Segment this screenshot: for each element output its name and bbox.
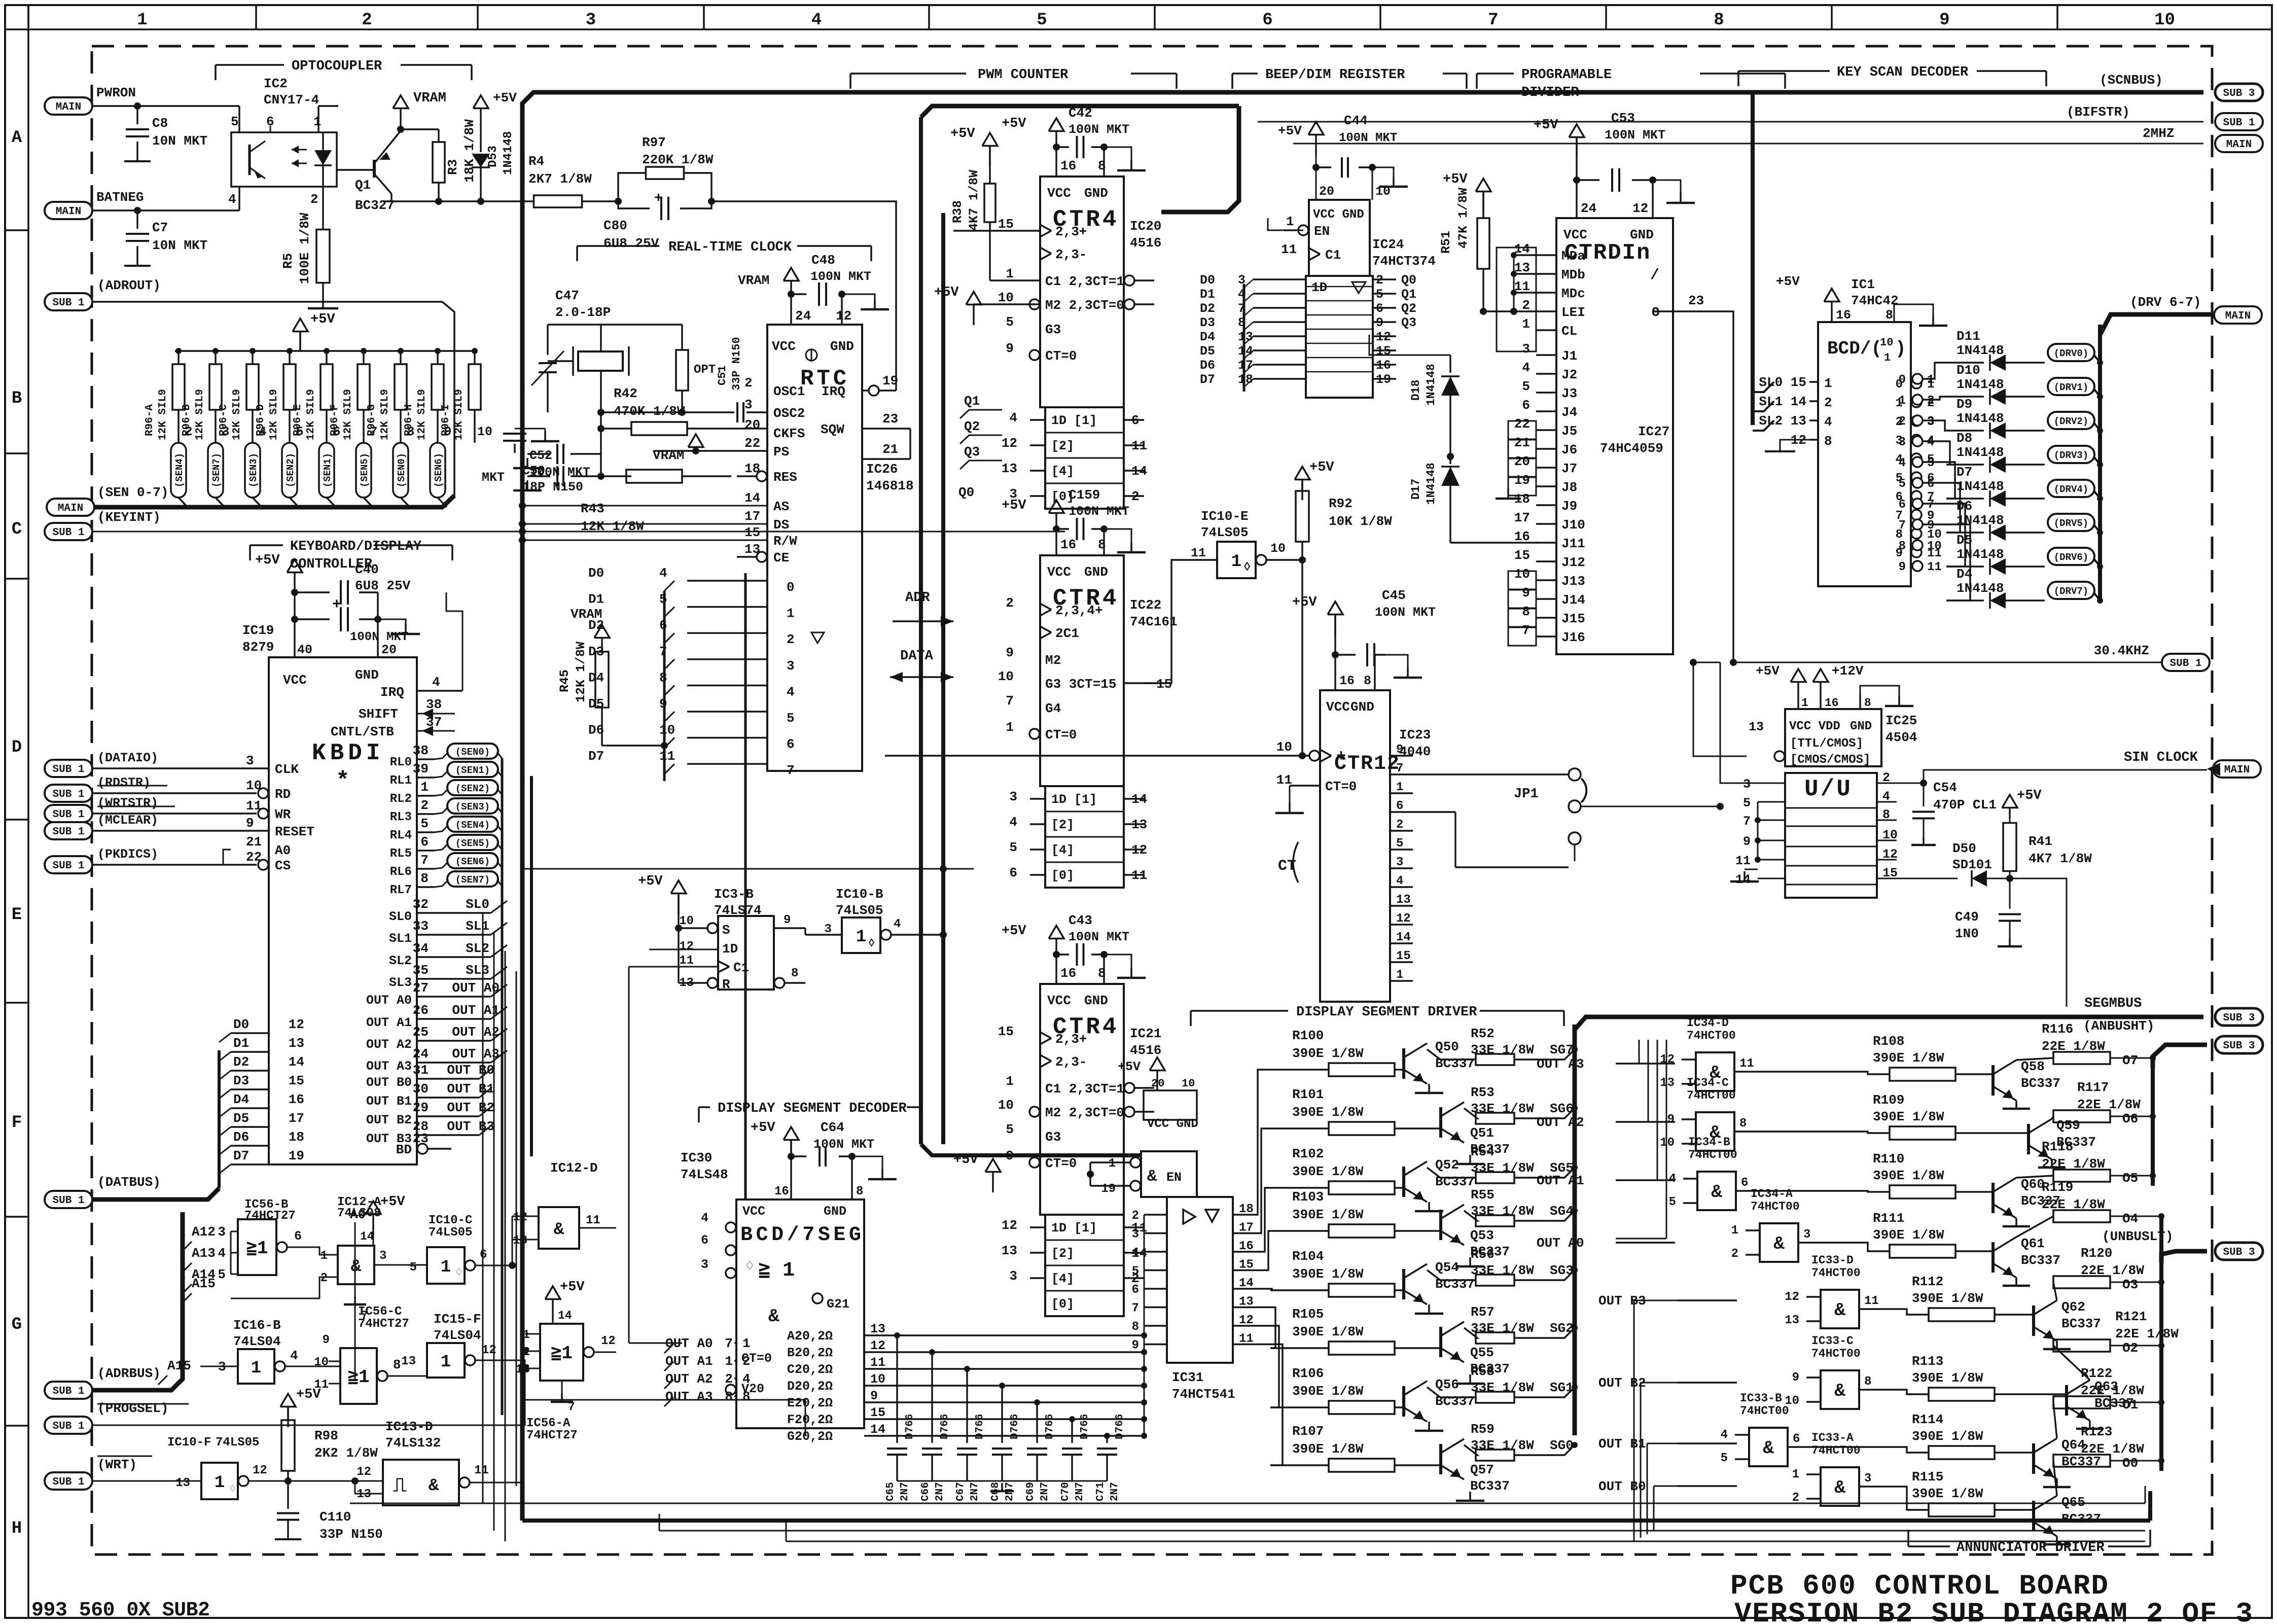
svg-text:1N4148: 1N4148: [1956, 479, 2004, 494]
svg-text:18P N150: 18P N150: [522, 480, 583, 495]
svg-text:BEEP/DIM REGISTER: BEEP/DIM REGISTER: [1265, 67, 1405, 83]
pin 11 of U/U left: [1758, 859, 1785, 861]
pin 10 of U/U right: [1877, 840, 1897, 841]
svg-text:13: 13: [1396, 893, 1411, 907]
svg-text:74LS48: 74LS48: [681, 1167, 728, 1182]
svg-text:+5V: +5V: [1118, 1060, 1141, 1074]
svg-text:CNTL/STB: CNTL/STB: [331, 724, 394, 739]
svg-text:17: 17: [1238, 358, 1253, 373]
svg-text:≧1: ≧1: [347, 1367, 369, 1388]
svg-text:(SEN7): (SEN7): [211, 453, 222, 487]
svg-text:C53: C53: [1611, 111, 1635, 126]
svg-text:+: +: [654, 191, 663, 206]
svg-text:WR: WR: [275, 807, 291, 822]
svg-text:1: 1: [420, 780, 429, 795]
svg-text:SUB 1: SUB 1: [52, 809, 84, 821]
svg-text:11: 11: [659, 749, 675, 764]
connector (DRV1): [2048, 378, 2094, 395]
svg-text:+5V: +5V: [1443, 172, 1468, 187]
svg-text:D4: D4: [233, 1092, 249, 1107]
svg-text:10: 10: [1375, 184, 1391, 199]
svg-text:A12: A12: [192, 1224, 216, 1240]
svg-text:IC34-B: IC34-B: [1688, 1136, 1730, 1149]
svg-text:OUT B2: OUT B2: [447, 1100, 494, 1115]
svg-text:2: 2: [1731, 1247, 1738, 1261]
svg-text:14: 14: [558, 1309, 572, 1322]
svg-text:+5V: +5V: [1002, 924, 1026, 939]
svg-text:CT=0: CT=0: [1045, 727, 1077, 743]
svg-text:2: 2: [787, 632, 795, 647]
svg-text:AS: AS: [773, 499, 789, 514]
svg-text:+5V: +5V: [1309, 460, 1334, 475]
svg-text:SL1: SL1: [466, 919, 489, 934]
svg-text:20: 20: [1151, 1077, 1164, 1090]
svg-text:R51: R51: [1439, 231, 1453, 254]
svg-text:1: 1: [523, 1328, 530, 1342]
svg-text:1: 1: [1396, 968, 1403, 982]
svg-text:VCC: VCC: [742, 1204, 765, 1219]
svg-text:D766: D766: [904, 1414, 916, 1439]
svg-text:D50: D50: [1952, 841, 1976, 856]
svg-text:1N4148: 1N4148: [1956, 343, 2004, 358]
svg-text:R43: R43: [581, 501, 604, 516]
svg-text:IC10-C: IC10-C: [429, 1214, 472, 1227]
svg-text:29: 29: [413, 1100, 429, 1115]
svg-text:2MHZ: 2MHZ: [2143, 126, 2174, 141]
connector MAIN: [2213, 760, 2261, 778]
resistor R5: [322, 187, 324, 229]
svg-text:KEYBOARD/DISPLAY: KEYBOARD/DISPLAY: [290, 539, 422, 554]
svg-text:CT=0: CT=0: [1045, 348, 1077, 364]
svg-text:100N MKT: 100N MKT: [1069, 122, 1129, 137]
wire SCNBUS drop to IC1: [1751, 94, 1755, 425]
connector (SEN0): [393, 443, 408, 498]
svg-text:BC337: BC337: [1435, 1394, 1475, 1409]
svg-text:7: 7: [1522, 623, 1530, 638]
svg-text:6: 6: [1899, 498, 1906, 512]
svg-text:OUT A1: OUT A1: [452, 1003, 500, 1018]
svg-text:146818: 146818: [866, 478, 914, 493]
svg-text:OUT A1: OUT A1: [1537, 1173, 1584, 1188]
resistor R96-H 12K SIL9: [435, 348, 441, 354]
section label BEEP/DIM REGISTER: [1232, 73, 1258, 75]
connector SUB 1: [45, 856, 92, 873]
svg-text:Q1: Q1: [1401, 287, 1416, 302]
svg-text:R111: R111: [1873, 1211, 1904, 1226]
svg-text:D2: D2: [233, 1054, 249, 1070]
svg-text:390E 1/8W: 390E 1/8W: [1292, 1324, 1364, 1339]
buffer IC31 74HCT541 enable gate: [1141, 1151, 1197, 1197]
svg-text:33P N150: 33P N150: [319, 1527, 383, 1542]
svg-text:2: 2: [1824, 395, 1832, 410]
svg-text:74HCT00: 74HCT00: [1811, 1266, 1861, 1280]
svg-text:11: 11: [1739, 1057, 1754, 1071]
counter IC22 74C161 CTR4: [1049, 500, 1064, 513]
wire WRT net: [92, 1480, 201, 1482]
resistor R96-D 12K SIL9: [287, 348, 293, 354]
svg-text:4: 4: [1396, 874, 1403, 888]
svg-text:R123: R123: [2081, 1424, 2112, 1439]
svg-text:SUB 1: SUB 1: [52, 1476, 84, 1488]
svg-text:2K2 1/8W: 2K2 1/8W: [314, 1445, 378, 1461]
svg-text:IRQ: IRQ: [380, 685, 404, 700]
resistor R96-B 12K SIL9: [212, 348, 219, 354]
svg-text:470K 1/8W: 470K 1/8W: [614, 404, 685, 419]
svg-text:10N MKT: 10N MKT: [152, 133, 207, 149]
pin MDa 14 of IC27: [1536, 254, 1556, 256]
crystal oscillator: [578, 351, 623, 371]
svg-text:R113: R113: [1912, 1354, 1943, 1369]
svg-text:OUT B3: OUT B3: [447, 1119, 494, 1134]
svg-text:SUB 3: SUB 3: [2223, 1247, 2255, 1258]
svg-text:D53: D53: [486, 146, 500, 167]
svg-text:(DRV2): (DRV2): [2054, 416, 2088, 427]
ground: [1744, 871, 1746, 881]
svg-text:&: &: [1834, 1381, 1845, 1401]
ground: [526, 458, 528, 468]
svg-text:IC10-E: IC10-E: [1201, 509, 1249, 524]
svg-text:1D [1]: 1D [1]: [1051, 1221, 1097, 1235]
svg-text:IC16-B: IC16-B: [233, 1318, 281, 1333]
svg-text:G4: G4: [1045, 701, 1061, 716]
svg-text:390E 1/8W: 390E 1/8W: [1912, 1370, 1983, 1386]
svg-text:Q61: Q61: [2021, 1236, 2045, 1251]
svg-text:10: 10: [998, 290, 1014, 305]
svg-text:23: 23: [1688, 293, 1704, 308]
svg-text:OUT A2: OUT A2: [1537, 1115, 1584, 1130]
svg-text:27: 27: [413, 980, 429, 996]
svg-text:IC34-D: IC34-D: [1687, 1016, 1729, 1030]
svg-text:13: 13: [744, 542, 760, 557]
svg-text:(MCLEAR): (MCLEAR): [97, 813, 158, 828]
diode D53 1N4148: [480, 109, 481, 152]
svg-text:74LS05: 74LS05: [1201, 525, 1249, 540]
svg-text:RL7: RL7: [390, 884, 412, 897]
svg-text:CL: CL: [1561, 324, 1577, 339]
svg-text:13: 13: [513, 1234, 527, 1248]
svg-text:1: 1: [1824, 376, 1832, 391]
svg-text:38: 38: [413, 743, 429, 758]
ground: [2051, 1159, 2053, 1168]
svg-text:15: 15: [998, 1024, 1014, 1039]
svg-text:8: 8: [393, 1357, 401, 1372]
svg-text:3: 3: [1864, 1472, 1871, 1486]
wire PROGSEL net: [97, 1403, 189, 1405]
svg-text:D0: D0: [588, 566, 604, 581]
svg-text:12: 12: [836, 308, 851, 324]
wire IRQ pull-up net: [711, 201, 896, 391]
svg-text:C70: C70: [1060, 1482, 1072, 1501]
svg-text:SUB 1: SUB 1: [52, 1386, 84, 1397]
svg-text:13: 13: [289, 1036, 304, 1051]
svg-text:74HCT27: 74HCT27: [244, 1209, 296, 1223]
svg-text:SD101: SD101: [1952, 857, 1992, 872]
power +5V: [1295, 467, 1310, 480]
svg-text:4: 4: [811, 11, 822, 30]
svg-text:(UNBUSLT): (UNBUSLT): [2102, 1229, 2173, 1244]
svg-text:11: 11: [870, 1355, 885, 1370]
svg-text:B20,2Ω: B20,2Ω: [787, 1346, 833, 1360]
svg-text:MAIN: MAIN: [2226, 139, 2252, 151]
svg-text:CS: CS: [275, 858, 291, 873]
svg-text:0: 0: [1899, 373, 1906, 387]
svg-text:3: 3: [787, 658, 795, 674]
svg-text:4: 4: [659, 566, 667, 581]
svg-text:[2]: [2]: [1051, 1246, 1074, 1261]
svg-text:R109: R109: [1873, 1092, 1904, 1108]
svg-text:RD: RD: [275, 787, 291, 802]
svg-text:R5: R5: [280, 253, 296, 269]
svg-text:D3: D3: [233, 1073, 249, 1088]
connector (SEN4): [447, 817, 498, 832]
svg-text:74LS05: 74LS05: [216, 1436, 259, 1450]
svg-text:SUB 3: SUB 3: [2223, 1012, 2255, 1024]
svg-text:R97: R97: [642, 135, 666, 150]
capacitor C68 2N7 with diode D766: [992, 1448, 1012, 1450]
section label DISPLAY SEGMENT DRIVER: [1191, 1010, 1288, 1012]
svg-text:R96-G: R96-G: [366, 404, 378, 436]
svg-text:&: &: [1773, 1233, 1785, 1254]
svg-text:E: E: [12, 905, 22, 925]
svg-text:♢: ♢: [455, 1266, 462, 1280]
svg-text:(SEN4): (SEN4): [455, 820, 490, 831]
capacitor C110 33P: [277, 1512, 299, 1514]
svg-text:MAIN: MAIN: [58, 503, 83, 514]
connector (DRV6): [2048, 548, 2094, 565]
svg-text:OSC2: OSC2: [773, 406, 805, 421]
svg-text:4: 4: [1522, 360, 1530, 375]
svg-text:10: 10: [1882, 828, 1898, 842]
svg-text:7: 7: [1488, 11, 1498, 30]
svg-text:2: 2: [1132, 1209, 1139, 1223]
svg-text:R59: R59: [1471, 1422, 1495, 1437]
svg-text:3: 3: [1803, 1228, 1810, 1242]
svg-text:SIN CLOCK: SIN CLOCK: [2124, 750, 2198, 765]
svg-text:390E 1/8W: 390E 1/8W: [1292, 1164, 1364, 1179]
svg-text:SUB 3: SUB 3: [2223, 1040, 2255, 1052]
svg-text:74C161: 74C161: [1130, 614, 1178, 629]
svg-text:R122: R122: [2081, 1366, 2112, 1381]
svg-text:19: 19: [1514, 473, 1530, 488]
svg-text:6: 6: [1262, 11, 1272, 30]
connector (DRV5): [2048, 514, 2094, 531]
buffer IC31 74HCT541: [1167, 1197, 1233, 1363]
svg-text:390E 1/8W: 390E 1/8W: [1912, 1291, 1983, 1306]
svg-text:Q55: Q55: [1470, 1345, 1494, 1360]
power +5V: [966, 292, 981, 305]
svg-text:C67: C67: [955, 1482, 967, 1501]
svg-text:6U8 25V: 6U8 25V: [603, 236, 659, 251]
svg-text:R55: R55: [1471, 1187, 1495, 1203]
svg-text:10: 10: [1182, 1077, 1195, 1090]
svg-text:4: 4: [1009, 815, 1017, 830]
svg-text:R53: R53: [1471, 1085, 1495, 1100]
pin 9 of U/U left: [1758, 840, 1785, 841]
svg-text:6: 6: [294, 1229, 302, 1244]
capacitor C65 2N7 with diode D766: [887, 1448, 907, 1450]
svg-text:12: 12: [1785, 1290, 1799, 1304]
svg-text:(SEN6): (SEN6): [433, 453, 444, 487]
svg-text:+5V: +5V: [1534, 118, 1558, 133]
svg-text:D20,2Ω: D20,2Ω: [787, 1379, 833, 1394]
svg-text:&: &: [1834, 1300, 1845, 1321]
svg-text:IC56-C: IC56-C: [358, 1305, 402, 1319]
svg-text:+5V: +5V: [953, 1152, 978, 1168]
svg-text:10: 10: [2154, 11, 2175, 30]
svg-text:3: 3: [586, 11, 596, 30]
svg-text:C69: C69: [1025, 1482, 1037, 1501]
svg-text:1: 1: [1231, 552, 1241, 572]
svg-text:74HCT27: 74HCT27: [526, 1429, 578, 1442]
svg-text:[0]: [0]: [1051, 868, 1074, 883]
svg-text:1N4148: 1N4148: [1425, 364, 1438, 406]
svg-text:9: 9: [1743, 834, 1751, 849]
RTC IC26 146818: [767, 325, 862, 771]
wire ADRBUS bus: [92, 1212, 183, 1390]
svg-text:16: 16: [1060, 158, 1076, 173]
svg-text:R: R: [722, 977, 730, 992]
svg-text:BC337: BC337: [2061, 1316, 2101, 1331]
svg-text:7: 7: [1927, 498, 1934, 512]
svg-text:+5V: +5V: [1756, 663, 1780, 679]
svg-text:&: &: [351, 1257, 362, 1277]
svg-text:VERSION B2 SUB DIAGRAM 2 OF 3: VERSION B2 SUB DIAGRAM 2 OF 3: [1734, 1598, 2253, 1624]
svg-text:C1: C1: [1325, 248, 1341, 263]
svg-text:17: 17: [289, 1111, 304, 1126]
ground: [1469, 1257, 1471, 1266]
svg-text:D5: D5: [233, 1111, 249, 1126]
svg-text:C1 2,3CT=15: C1 2,3CT=15: [1045, 274, 1132, 289]
wire D4 to KBDI: [231, 1107, 269, 1109]
power VRAM: [688, 434, 703, 447]
svg-text:R96-C: R96-C: [218, 404, 230, 436]
svg-text:IC10-B: IC10-B: [836, 887, 883, 902]
svg-text:D766: D766: [1079, 1414, 1091, 1439]
svg-text:21: 21: [246, 834, 262, 850]
connector SUB 1: [45, 760, 92, 777]
power VRAM: [594, 625, 610, 638]
power +5V: [2002, 795, 2017, 808]
svg-text:(DRV0): (DRV0): [2054, 348, 2088, 359]
svg-text:R42: R42: [614, 386, 637, 401]
svg-text:U/U: U/U: [1804, 776, 1853, 802]
svg-text:16: 16: [1060, 966, 1076, 981]
svg-text:5: 5: [1899, 477, 1906, 491]
ground: [1932, 315, 1934, 326]
svg-text:8: 8: [742, 1389, 751, 1404]
svg-text:IC19: IC19: [242, 623, 274, 638]
svg-text:390E 1/8W: 390E 1/8W: [1873, 1109, 1944, 1124]
svg-text:R117: R117: [2077, 1080, 2109, 1095]
svg-text:30: 30: [413, 1081, 429, 1097]
svg-text:OUT A2: OUT A2: [366, 1037, 412, 1052]
svg-text:+5V: +5V: [1002, 116, 1026, 131]
wire DATA bus vertical: [744, 573, 747, 1199]
svg-text:EN: EN: [1166, 1170, 1182, 1185]
svg-text:OUT A0: OUT A0: [366, 993, 412, 1008]
svg-text:BC337: BC337: [1435, 1277, 1475, 1292]
svg-text:21: 21: [882, 442, 898, 457]
svg-text:R102: R102: [1292, 1146, 1324, 1161]
svg-text:G3 3CT=15: G3 3CT=15: [1045, 677, 1116, 692]
svg-text:4: 4: [432, 675, 440, 690]
svg-text:O3: O3: [2122, 1277, 2138, 1292]
svg-text:12K SIL9: 12K SIL9: [194, 389, 206, 440]
svg-text:8: 8: [1885, 308, 1893, 323]
svg-text:R38: R38: [950, 200, 965, 223]
svg-text:&: &: [1711, 1182, 1722, 1203]
svg-text:(SEN6): (SEN6): [455, 856, 490, 867]
svg-text:IC1: IC1: [1851, 277, 1875, 292]
svg-text:&: &: [768, 1306, 779, 1327]
svg-text:11: 11: [1735, 854, 1751, 868]
resistor R41 4K7: [2003, 823, 2016, 871]
svg-text:(DRV7): (DRV7): [2054, 586, 2088, 597]
connector (SEN7): [447, 871, 498, 887]
svg-text:390E 1/8W: 390E 1/8W: [1292, 1441, 1364, 1457]
svg-text:15: 15: [744, 525, 760, 540]
svg-text:&: &: [1763, 1438, 1774, 1459]
pin CL 1 of IC27: [1536, 329, 1556, 331]
svg-text:EN: EN: [1314, 224, 1330, 239]
svg-text:◊: ◊: [1243, 561, 1251, 575]
section label DISPLAY SEGMENT DECODER: [699, 1106, 710, 1108]
connector (SEN7): [208, 443, 223, 498]
svg-text:MAIN: MAIN: [2225, 310, 2251, 322]
svg-text:CNY17-4: CNY17-4: [264, 92, 319, 108]
svg-text:C110: C110: [319, 1509, 351, 1525]
svg-text:SL1 14: SL1 14: [1759, 394, 1806, 409]
resistor R51 47K: [1477, 218, 1489, 269]
svg-text:5: 5: [1006, 314, 1014, 330]
svg-text:(DRV 6-7): (DRV 6-7): [2130, 295, 2201, 310]
capacitor C70 2N7 with diode D766: [1062, 1448, 1082, 1450]
connector (DRV4): [2048, 480, 2094, 497]
svg-text:2,3-: 2,3-: [1055, 1054, 1087, 1070]
svg-text:OUT A3: OUT A3: [665, 1389, 713, 1404]
svg-text:33E 1/8W: 33E 1/8W: [1471, 1160, 1534, 1176]
resistor R96-G 12K SIL9: [398, 348, 404, 354]
wire D6 to KBDI: [231, 1145, 269, 1146]
svg-text:RL4: RL4: [390, 829, 412, 842]
svg-text:J11: J11: [1561, 536, 1585, 551]
svg-text:2: 2: [742, 1354, 751, 1369]
svg-text:E20,2Ω: E20,2Ω: [787, 1396, 833, 1410]
svg-text:1: 1: [1522, 316, 1530, 332]
svg-text:13: 13: [870, 1322, 885, 1336]
svg-text:2: 2: [725, 1371, 733, 1387]
register IC24 74HCT374: [1309, 200, 1370, 276]
capacitor C7: [136, 210, 138, 229]
svg-text:≧1: ≧1: [551, 1343, 573, 1364]
svg-text:3: 3: [1009, 789, 1017, 804]
svg-text:12: 12: [1396, 912, 1411, 926]
svg-text:4: 4: [1669, 1172, 1676, 1186]
svg-text:1N4148: 1N4148: [1956, 411, 2004, 426]
svg-text:SHIFT: SHIFT: [359, 707, 398, 722]
svg-text:2: 2: [1899, 415, 1906, 429]
svg-text:33E 1/8W: 33E 1/8W: [1471, 1321, 1534, 1336]
svg-text:*: *: [336, 768, 350, 794]
svg-text:32: 32: [413, 897, 429, 912]
pin CE 13 of RTC IC26: [757, 552, 767, 562]
svg-text:R115: R115: [1912, 1469, 1943, 1485]
wire 2MHZ net: [1293, 143, 2203, 145]
ground: [2015, 1101, 2017, 1109]
svg-text:4: 4: [894, 917, 901, 931]
svg-text:10: 10: [998, 1098, 1014, 1113]
svg-text:10: 10: [314, 1356, 329, 1369]
